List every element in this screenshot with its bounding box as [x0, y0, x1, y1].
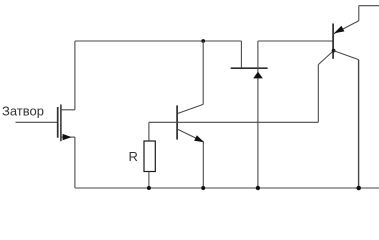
- node junction VT2 source / bottom rail: [256, 186, 260, 190]
- wire VT2 source vertical to bottom rail: [257, 68, 259, 188]
- svg-text:R: R: [129, 149, 138, 164]
- wire bottom rail: [75, 187, 379, 189]
- arrow VT1 source (points right): [63, 134, 72, 140]
- wire VT1 source drop to bottom rail: [74, 137, 76, 188]
- node junction R / bottom rail: [147, 186, 151, 190]
- transistor VT1 channel bar: [60, 105, 62, 142]
- wire VT4 collector diagonal: [178, 104, 204, 113]
- wire VT2 gate drop: [240, 41, 242, 68]
- svg-text:Затвор: Затвор: [2, 104, 44, 119]
- transistor VT3 base bar (right PNP): [332, 24, 334, 59]
- arrow VT3 emitter (points down-left into bar): [334, 26, 344, 33]
- wire R top riser: [148, 122, 150, 141]
- wire VT3 collector riser (right side of base net): [317, 65, 319, 123]
- node junction VT4 emitter / bottom rail: [201, 186, 205, 190]
- wire VT3 collector-left diagonal: [318, 51, 333, 65]
- node junction on VT3 bar: [332, 49, 336, 53]
- wire VT3 emitter diagonal: [334, 21, 359, 34]
- wire VT4 collector riser: [202, 41, 204, 104]
- wire VT2 drain to VT3 base: [258, 40, 333, 42]
- arrow VT2 source (points up): [253, 72, 263, 79]
- transistor VT2 gate/channel bar (horizontal): [231, 67, 268, 69]
- node junction on top rail: [201, 39, 205, 43]
- wire VT2 drain vertical: [257, 41, 259, 68]
- wire VT4 emitter drop: [202, 142, 204, 188]
- wire base net (R top to PNP collector): [149, 121, 318, 123]
- wire VT3 collector-right diagonal: [334, 51, 359, 60]
- wire VT1 drain riser: [74, 41, 76, 110]
- node junction right drop / bottom rail: [356, 186, 361, 191]
- wire VT4 emitter diagonal: [178, 129, 204, 142]
- wire right drop to bottom rail: [358, 60, 360, 188]
- transistor VT1 gate bar (left MOSFET): [57, 107, 59, 138]
- wire R bottom lead: [148, 172, 150, 189]
- arrow VT4 emitter (points down-right): [194, 135, 204, 142]
- wire VT1 source stub: [61, 136, 75, 138]
- wire collector terminal (top right): [359, 5, 379, 7]
- transistor VT4 base bar (middle NPN): [176, 105, 178, 139]
- resistor R body: [144, 141, 155, 172]
- wire VT1 drain stub: [61, 109, 75, 111]
- wire top rail: [75, 40, 242, 42]
- wire gate lead: [16, 121, 58, 123]
- wire VT3 emitter riser: [358, 6, 360, 21]
